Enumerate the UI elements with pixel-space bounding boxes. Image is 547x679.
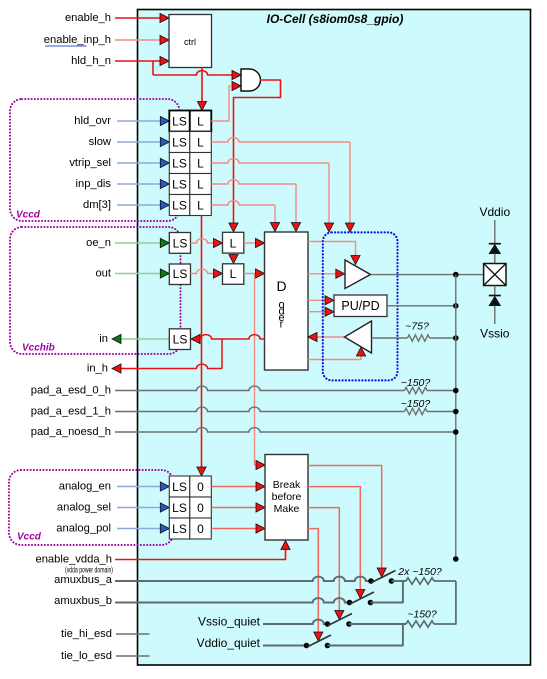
svg-text:analog_en: analog_en	[59, 481, 111, 493]
wire esd0 to pad net	[427, 390, 456, 392]
arrowhead enable_h into ctrl	[160, 13, 169, 22]
arrowhead vtrip_sel into driver region	[324, 223, 333, 232]
wire hld_ovr L to AND	[211, 86, 232, 121]
wire out branch to break-before-make	[255, 274, 257, 466]
svg-text:L: L	[197, 178, 204, 192]
svg-text:~150?: ~150?	[401, 398, 431, 410]
arrowhead analog_en into LS	[160, 482, 169, 491]
resistor ~75 ohm	[408, 335, 430, 341]
wire resistor75 to pad net	[430, 337, 456, 339]
svg-text:dm[3]: dm[3]	[83, 199, 111, 211]
arrowhead analog_en into break-before-make	[256, 482, 265, 491]
wire diode2 to Vssio	[494, 306, 496, 324]
wire out L to decoder	[244, 273, 256, 275]
wire oe_n latch to out latch	[233, 253, 235, 257]
wire PU/PD to pad net	[387, 305, 456, 307]
level shifter LS out	[169, 264, 190, 285]
power domain box Vccd (top)	[10, 99, 180, 221]
wire oe_n L to decoder	[244, 242, 256, 244]
svg-text:enable_inp_h: enable_inp_h	[44, 34, 111, 46]
resistor ~150 ohm (esd1)	[405, 408, 428, 414]
pad symbol	[484, 264, 506, 286]
svg-text:in_h: in_h	[87, 363, 108, 375]
wire decoder to input buffer disable	[308, 354, 361, 360]
arrowhead oe_n into LS	[160, 238, 169, 247]
arrowhead onto amuxbus_a switch	[377, 568, 386, 577]
hyperlink underline enable_	[45, 45, 87, 47]
wire amuxbus_b join	[371, 581, 403, 603]
arrowhead into out latch	[229, 255, 238, 264]
arrowhead slow into driver region	[345, 223, 354, 232]
svg-text:analog_sel: analog_sel	[57, 502, 111, 514]
svg-text:L: L	[197, 157, 204, 171]
wire tie_lo_esd	[116, 655, 150, 657]
wire analog_pol to break-before-make	[211, 528, 256, 530]
wire amuxbus_a	[115, 577, 371, 581]
svg-text:~150?: ~150?	[401, 377, 431, 389]
driver region box (blue dashed)	[323, 232, 398, 380]
svg-text:Vssio: Vssio	[480, 327, 510, 341]
arrowhead in out of cell	[112, 334, 121, 343]
svg-text:0: 0	[197, 480, 204, 494]
svg-text:ctrl: ctrl	[184, 37, 196, 47]
pad net vertical	[455, 275, 457, 559]
svg-text:PU/PD: PU/PD	[341, 299, 379, 313]
svg-text:~150?: ~150?	[407, 609, 437, 621]
svg-text:0: 0	[197, 501, 204, 515]
svg-text:IO-Cell (s8iom0s8_gpio): IO-Cell (s8iom0s8_gpio)	[267, 12, 404, 26]
latch L oe_n	[223, 232, 244, 253]
svg-text:hld_ovr: hld_ovr	[74, 115, 111, 127]
svg-text:D: D	[276, 278, 286, 294]
svg-text:LS: LS	[172, 480, 187, 494]
arrowhead vtrip_sel into LS	[160, 158, 169, 167]
wire in (green)	[120, 338, 169, 340]
arrowhead out into L	[214, 269, 223, 278]
resistor 2x ~150 ohm	[406, 578, 434, 584]
wire Vddio_quiet join	[328, 624, 403, 646]
wire out LS to L	[191, 269, 214, 273]
isolation 0 cell analog_pol	[190, 518, 212, 539]
wire bbm to vddio_quiet switch	[308, 529, 318, 635]
arrowhead analog_sel into break-before-make	[256, 503, 265, 512]
wire Vddio to diode	[494, 220, 496, 244]
level shifter LS oe_n	[169, 233, 190, 254]
arrowhead AND loop into L oe_n	[229, 223, 238, 232]
wire hld_h_n to AND gate	[153, 71, 232, 75]
wire dm[3] L to decoder	[211, 201, 275, 205]
wire AND output loop	[234, 80, 281, 227]
arrowhead into output buffer	[336, 269, 345, 278]
svg-text:LS: LS	[172, 199, 187, 213]
wire analog_en	[117, 486, 161, 488]
svg-text:LS: LS	[173, 237, 188, 251]
svg-text:Break: Break	[273, 479, 301, 491]
junction esd1	[453, 409, 459, 415]
level shifter LS slow	[169, 132, 190, 153]
switch S2 contacts	[347, 600, 353, 606]
arrowhead hld_h_n into ctrl	[160, 56, 169, 65]
resistor ~150 ohm (quiet)	[406, 621, 434, 627]
isolation 0 cell analog_sel	[190, 497, 212, 518]
PU/PD block	[334, 295, 387, 317]
svg-text:slow: slow	[89, 136, 112, 148]
wire esd1 to pad net	[427, 411, 456, 413]
wire input buffer net	[372, 337, 408, 339]
wire analog_sel to break-before-make	[211, 507, 256, 509]
svg-text:amuxbus_a: amuxbus_a	[54, 574, 113, 586]
svg-text:LS: LS	[173, 267, 188, 281]
wire pad_a_noesd_h	[115, 428, 456, 432]
wire dm[3]	[117, 204, 161, 206]
svg-text:enable_h: enable_h	[65, 12, 111, 24]
svg-text:tie_lo_esd: tie_lo_esd	[61, 650, 112, 662]
svg-text:~75?: ~75?	[405, 321, 429, 333]
level shifter LS dm[3]	[169, 195, 190, 216]
svg-text:inp_dis: inp_dis	[76, 178, 112, 190]
wire in_h branch	[221, 339, 223, 369]
switch S1 arm	[372, 571, 396, 583]
svg-text:L: L	[197, 199, 204, 213]
wire vtrip_sel L to driver box	[211, 159, 329, 163]
wire pad_a_esd_0_h	[115, 386, 405, 390]
wire decoder to PU/PD 1	[308, 299, 326, 301]
level shifter LS inp_dis	[169, 174, 190, 195]
IO cell boundary	[138, 10, 531, 666]
svg-text:pad_a_esd_0_h: pad_a_esd_0_h	[31, 385, 111, 397]
arrowhead into analog 0 stack	[197, 467, 206, 476]
svg-text:LS: LS	[172, 157, 187, 171]
svg-text:0: 0	[197, 522, 204, 536]
level shifter LS vtrip_sel	[169, 153, 190, 174]
arrowhead drive into output buffer	[351, 256, 360, 265]
svg-text:vtrip_sel: vtrip_sel	[69, 157, 111, 169]
wire analog_en to break-before-make	[211, 486, 256, 488]
svg-text:analog_pol: analog_pol	[56, 523, 111, 535]
level shifter LS in	[169, 329, 190, 350]
switch S3 contacts	[325, 621, 331, 627]
wire pad data to in	[200, 335, 265, 339]
wire resistor to stub	[434, 580, 456, 582]
svg-text:Vddio: Vddio	[479, 205, 510, 219]
wire analog_sel	[117, 507, 161, 509]
wire pad_a_esd_1_h	[115, 407, 405, 411]
isolation 0 cell analog_en	[190, 476, 212, 497]
wire Vssio_quiet to resistor	[349, 623, 406, 625]
wire decoder to PU/PD 2	[308, 311, 326, 313]
wire inp_dis	[117, 183, 161, 185]
wire latch stack to analog stack	[201, 216, 203, 468]
arrowhead into PU/PD 1	[325, 296, 334, 305]
diode D2 (to Vssio)	[489, 295, 501, 297]
arrowhead onto vddio_quiet switch	[314, 632, 323, 641]
wire oe_n	[115, 242, 161, 244]
arrowhead input buffer into decoder	[308, 332, 317, 341]
arrowhead onto amuxbus_b switch	[356, 590, 365, 599]
junction output to pad	[453, 272, 459, 278]
latch L out	[223, 264, 244, 285]
arrowhead out into decoder	[256, 269, 265, 278]
arrowhead oe_n into decoder	[256, 238, 265, 247]
svg-text:amuxbus_b: amuxbus_b	[54, 595, 112, 607]
diode D1 (to Vddio)	[489, 243, 501, 245]
wire bbm to vssio_quiet switch	[308, 508, 339, 613]
arrowhead inp_dis into LS	[160, 179, 169, 188]
wire ctrl to latch stack	[201, 68, 203, 102]
switch S1 contacts	[368, 578, 374, 584]
svg-text:Vddio_quiet: Vddio_quiet	[197, 636, 261, 650]
arrowhead slow into LS	[160, 137, 169, 146]
svg-text:before: before	[272, 491, 302, 503]
arrowhead into input buffer bottom	[356, 347, 365, 356]
latch L slow	[190, 132, 212, 153]
svg-text:L: L	[230, 237, 237, 251]
wire decoder to output buffer drive	[308, 242, 356, 257]
arrowhead into LS in	[191, 334, 200, 343]
level shifter LS hld_ovr	[169, 111, 190, 132]
arrowhead AND input 2	[232, 81, 241, 90]
svg-text:L: L	[197, 136, 204, 150]
arrowhead analog_pol into break-before-make	[256, 524, 265, 533]
wire tie_hi_esd	[116, 633, 150, 635]
junction esd0	[453, 388, 459, 394]
latch L hld_ovr	[190, 111, 212, 132]
switch S4 contacts	[304, 643, 310, 649]
svg-text:Vccd: Vccd	[16, 210, 41, 221]
arrowhead enable_inp_h into ctrl	[160, 35, 169, 44]
wire hld_ovr	[117, 120, 161, 122]
ctrl box U1	[169, 15, 212, 68]
power domain box Vccd (analog)	[9, 470, 174, 545]
resistor ~150 ohm (esd0)	[405, 387, 428, 393]
switch S2 arm	[350, 592, 374, 604]
svg-text:LS: LS	[172, 501, 187, 515]
wire Vssio_quiet	[263, 620, 328, 624]
svg-text:Vcchib: Vcchib	[22, 343, 55, 354]
arrowhead oe_n into L	[214, 238, 223, 247]
wire decoder to output buffer	[308, 273, 336, 275]
wire amuxbus_a to resistor	[392, 580, 407, 582]
wire slow	[117, 141, 161, 143]
level shifter LS analog_sel	[169, 497, 190, 518]
svg-text:LS: LS	[172, 178, 187, 192]
latch L inp_dis	[190, 174, 212, 195]
junction noesd	[453, 429, 459, 435]
svg-text:pad_a_esd_1_h: pad_a_esd_1_h	[31, 406, 111, 418]
arrowhead enable_vdda_h into BBM	[281, 541, 290, 550]
wire enable_vdda_h	[115, 546, 286, 560]
svg-text:Vccd: Vccd	[17, 532, 42, 543]
level shifter LS analog_en	[169, 476, 190, 497]
wire vtrip_sel	[117, 162, 161, 164]
wire amuxbus_b	[115, 598, 350, 602]
output buffer X1	[345, 260, 371, 289]
svg-text:tie_hi_esd: tie_hi_esd	[61, 628, 112, 640]
wire analog_pol	[117, 528, 161, 530]
svg-text:L: L	[230, 267, 237, 281]
wire hld_h_n	[115, 60, 161, 62]
switch S3 arm	[328, 614, 352, 626]
svg-text:L: L	[197, 115, 204, 129]
wire diode to pad	[494, 254, 496, 264]
switch S4 arm	[307, 635, 331, 647]
wire bbm to amuxbus_b switch	[308, 487, 360, 592]
arrowhead analog_sel into LS	[160, 503, 169, 512]
input buffer X2	[345, 321, 372, 353]
wire bbm to amuxbus_a switch	[308, 466, 382, 571]
arrowhead out into LS	[160, 269, 169, 278]
svg-text:LS: LS	[172, 136, 187, 150]
arrowhead inp_dis into decoder	[291, 223, 300, 232]
svg-text:hld_h_n: hld_h_n	[71, 55, 111, 67]
pad net end junction	[453, 556, 459, 562]
arrowhead dm[3] into LS	[160, 200, 169, 209]
AND gate G1	[241, 69, 261, 91]
svg-text:Vssio_quiet: Vssio_quiet	[198, 615, 261, 629]
latch L vtrip_sel	[190, 153, 212, 174]
svg-text:in: in	[99, 333, 108, 345]
arrowhead in_h out of cell	[112, 364, 121, 373]
wire input buffer to decoder	[317, 336, 345, 338]
arrowhead out into break-before-make	[256, 460, 265, 469]
break before make block	[265, 455, 308, 541]
svg-text:out: out	[95, 268, 111, 280]
junction PU/PD	[453, 303, 459, 309]
svg-text:enable_vdda_h: enable_vdda_h	[35, 554, 112, 566]
junction input buffer net	[453, 335, 459, 341]
svg-text:LS: LS	[173, 333, 188, 347]
arrowhead ctrl to latch stack	[197, 102, 206, 111]
svg-text:2x ~150?: 2x ~150?	[397, 566, 442, 578]
power domain box Vcchib	[10, 227, 181, 354]
arrowhead into PU/PD 2	[325, 307, 334, 316]
wire in_h	[121, 364, 222, 368]
wire inp_dis L to decoder	[211, 180, 296, 184]
wire quiet resistor to stub	[434, 581, 456, 624]
wire hld_h_n branch down	[152, 61, 154, 75]
svg-text:LS: LS	[172, 115, 187, 129]
arrowhead onto vssio_quiet switch	[335, 611, 344, 620]
decoder block D	[265, 232, 309, 370]
wire output buffer to pad	[371, 274, 484, 276]
arrowhead AND input 1	[232, 70, 241, 79]
wire enable_h	[115, 17, 161, 19]
arrowhead analog_pol into LS	[160, 524, 169, 533]
arrowhead hld_ovr into LS	[160, 116, 169, 125]
wire pad to diode2	[494, 286, 496, 296]
latch L dm[3]	[190, 195, 212, 216]
svg-text:Make: Make	[274, 503, 300, 515]
wire Vddio_quiet	[263, 645, 307, 647]
wire oe_n LS to L	[191, 239, 214, 243]
svg-text:LS: LS	[172, 522, 187, 536]
svg-text:oe_n: oe_n	[86, 237, 111, 249]
svg-text:r: r	[280, 319, 284, 331]
level shifter LS analog_pol	[169, 518, 190, 539]
arrowhead dm[3] into decoder	[270, 223, 279, 232]
wire enable_inp_h	[115, 39, 161, 41]
svg-text:pad_a_noesd_h: pad_a_noesd_h	[31, 426, 111, 438]
wire out	[115, 273, 161, 275]
wire slow L to driver box	[211, 138, 350, 142]
